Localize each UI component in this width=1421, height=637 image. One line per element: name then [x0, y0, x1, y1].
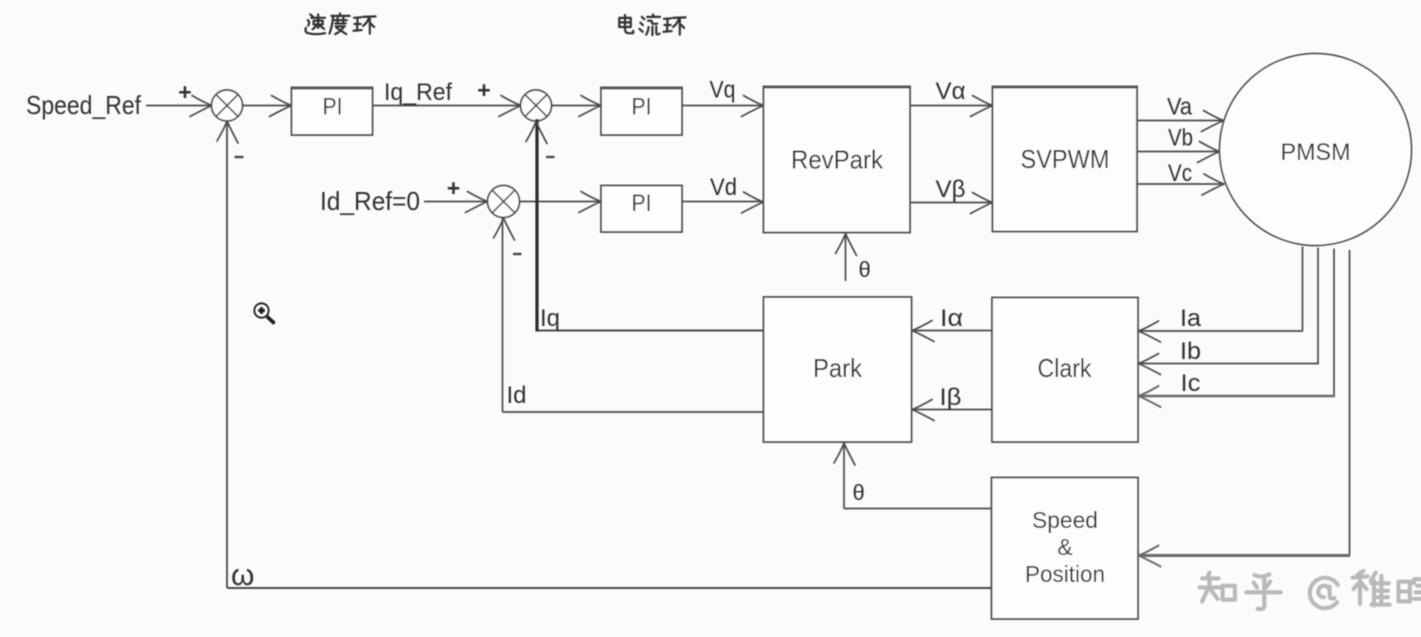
- svg-text:θ: θ: [853, 480, 865, 505]
- wire Ia horizontal: [1139, 330, 1304, 332]
- arrowhead Vbeta into SVPWM: [971, 193, 993, 214]
- svg-text:Park: Park: [813, 353, 863, 383]
- wire SVPWM to PMSM Va: [1137, 120, 1223, 122]
- arrowhead Vq into RevPark: [742, 96, 764, 117]
- block Speed and Position estimator: [992, 478, 1139, 620]
- svg-text:+: +: [477, 77, 490, 103]
- wire PI3 to RevPark Vd: [682, 201, 763, 203]
- arrowhead Id into sum3: [494, 218, 515, 240]
- svg-text:Vb: Vb: [1168, 125, 1193, 152]
- wire PMSM to Ic vertical: [1333, 249, 1335, 397]
- motor PMSM circle: [1220, 54, 1412, 246]
- wire omega vertical: [226, 121, 228, 588]
- block PI1 speed regulator: [292, 88, 373, 136]
- svg-text:Vα: Vα: [936, 78, 966, 105]
- wire PMSM to speed sensor vertical: [1349, 250, 1351, 556]
- block RevPark inverse Park transform: [764, 87, 911, 233]
- block SVPWM: [993, 87, 1138, 232]
- theta stub into RevPark bottom: [845, 233, 847, 282]
- arrowhead into sum2: [499, 96, 521, 117]
- arrowhead Ia into Clark: [1139, 321, 1161, 342]
- wire Id horizontal Park to bus: [503, 411, 765, 413]
- svg-text:Clark: Clark: [1038, 353, 1093, 383]
- watermark zhihu text: [1200, 573, 1235, 602]
- wire Id vertical: [502, 218, 504, 413]
- svg-text:SVPWM: SVPWM: [1021, 144, 1110, 174]
- svg-text:Position: Position: [1025, 561, 1105, 587]
- zoom cursor icon: [254, 303, 274, 323]
- arrowhead omega into sum1: [217, 121, 238, 143]
- summing junction sum3: [488, 186, 520, 218]
- wire PI1 to sum2 Iq_Ref: [373, 105, 521, 107]
- arrowhead Vd into RevPark: [742, 192, 764, 213]
- wire Clark to Park Ialpha: [912, 330, 992, 332]
- wire Iq horizontal Park to bus: [536, 330, 764, 332]
- arrowhead Iq into sum2: [526, 122, 547, 144]
- block PI3 d-current regulator: [601, 186, 682, 233]
- arrowhead Ib into Clark: [1139, 354, 1161, 375]
- wire theta horizontal: [844, 508, 992, 510]
- arrowhead Vc into PMSM: [1202, 174, 1224, 195]
- svg-text:θ: θ: [859, 257, 871, 282]
- svg-text:Va: Va: [1167, 94, 1193, 121]
- arrowhead into PI2: [579, 96, 601, 117]
- arrowhead Va into PMSM: [1202, 111, 1224, 132]
- svg-text:Ib: Ib: [1180, 338, 1201, 365]
- svg-text:Speed_Ref: Speed_Ref: [26, 90, 142, 120]
- svg-text:PI: PI: [632, 94, 652, 121]
- arrowhead into sum1: [190, 96, 212, 117]
- arrowhead theta into RevPark: [836, 234, 857, 256]
- svg-text:Vd: Vd: [710, 174, 737, 201]
- arrowhead Ialpha into Park: [912, 321, 934, 342]
- svg-text:Iβ: Iβ: [940, 384, 962, 411]
- svg-text:RevPark: RevPark: [791, 145, 884, 175]
- arrowhead into Speed and Position: [1139, 546, 1161, 567]
- summing junction sum1: [212, 90, 243, 121]
- minus sign sum3: [513, 253, 522, 255]
- svg-text:+: +: [178, 79, 191, 105]
- svg-text:Iq: Iq: [540, 305, 560, 332]
- svg-text:PI: PI: [323, 94, 343, 121]
- minus sign sum2: [546, 156, 555, 158]
- wire SVPWM to PMSM Vb: [1137, 151, 1219, 153]
- arrowhead Vb into PMSM: [1198, 142, 1220, 163]
- wire sum1 to PI1: [243, 105, 292, 107]
- block Clark transform: [992, 298, 1138, 443]
- svg-text:+: +: [447, 175, 460, 201]
- arrowhead theta into Park: [834, 443, 855, 465]
- arrowhead Valpha into SVPWM: [971, 96, 993, 117]
- wire Speed_Ref to sum1: [146, 105, 212, 107]
- wire RevPark to SVPWM Valpha: [910, 105, 992, 107]
- svg-text:Ia: Ia: [1180, 305, 1202, 332]
- wire SVPWM to PMSM Vc: [1137, 183, 1223, 185]
- wire Id_Ref to sum3: [424, 201, 487, 203]
- arrowhead into sum3: [466, 192, 488, 213]
- wire omega horizontal: [227, 587, 992, 589]
- svg-text:Iq_Ref: Iq_Ref: [384, 79, 452, 106]
- svg-text:PMSM: PMSM: [1281, 139, 1351, 166]
- block Park transform: [764, 297, 912, 442]
- arrowhead Ibeta into Park: [912, 400, 934, 421]
- wire PI2 to RevPark Vq: [682, 105, 763, 107]
- block PI2 q-current regulator: [601, 88, 682, 136]
- arrowhead Ic into Clark: [1139, 386, 1161, 407]
- svg-text:Iα: Iα: [940, 305, 963, 332]
- svg-text:Id: Id: [507, 382, 527, 409]
- wire Clark to Park Ibeta: [912, 409, 992, 411]
- wire PMSM to Ib vertical: [1317, 248, 1319, 364]
- svg-text:Vc: Vc: [1168, 160, 1192, 187]
- svg-text:PI: PI: [632, 190, 652, 217]
- svg-text:Speed: Speed: [1032, 507, 1098, 533]
- wire sensor input horizontal: [1139, 554, 1351, 557]
- svg-text:&: &: [1057, 534, 1072, 560]
- arrowhead into PI3: [579, 192, 601, 213]
- summing junction sum2: [521, 90, 552, 121]
- wire Ib horizontal: [1139, 363, 1320, 365]
- wire sum2 to PI2: [552, 105, 601, 107]
- svg-text:Id_Ref=0: Id_Ref=0: [320, 186, 420, 216]
- svg-text:Vβ: Vβ: [936, 176, 966, 203]
- wire RevPark to SVPWM Vbeta: [910, 202, 992, 204]
- svg-text:Ic: Ic: [1181, 370, 1201, 397]
- minus sign sum1: [235, 156, 244, 158]
- wire Ic horizontal: [1139, 395, 1336, 398]
- label speed-loop 速度环: [305, 14, 325, 34]
- svg-text:ω: ω: [231, 559, 254, 592]
- wire Iq vertical thick: [535, 119, 538, 332]
- arrowhead into PI1: [270, 96, 292, 117]
- svg-text:Vq: Vq: [710, 77, 736, 104]
- wire PMSM to Ia vertical: [1302, 247, 1304, 332]
- wire sum3 to PI3: [520, 201, 601, 203]
- label current-loop 电流环: [619, 15, 633, 33]
- wire theta vertical into Park: [843, 443, 845, 509]
